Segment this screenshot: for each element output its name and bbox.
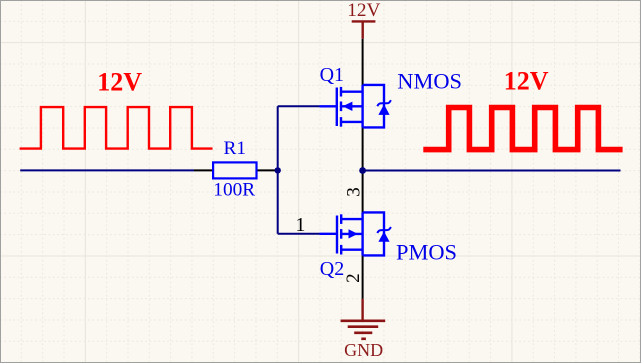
wire Q2 source (black) <box>362 255 364 299</box>
output square wave (bold red) <box>423 108 622 150</box>
power port 12V <box>352 21 376 38</box>
svg-text:Q2: Q2 <box>320 258 344 280</box>
wire input (navy) <box>20 169 194 171</box>
transistor Q1 (NMOS) <box>320 85 385 128</box>
svg-text:PMOS: PMOS <box>396 239 457 264</box>
svg-text:Q1: Q1 <box>320 64 344 86</box>
svg-text:NMOS: NMOS <box>397 69 462 94</box>
svg-text:1: 1 <box>295 214 305 236</box>
wire Q1 source to node (black) <box>362 127 364 170</box>
leads <box>341 90 363 92</box>
resistor R1 <box>213 162 256 178</box>
gate pin <box>320 105 337 107</box>
Q1 bulk arrow <box>343 102 353 111</box>
wire Q1 drain (black) <box>362 39 364 85</box>
wire node to Q2 drain (black) <box>362 171 364 213</box>
svg-text:GND: GND <box>344 340 383 360</box>
leads <box>341 218 362 220</box>
input square wave (red) <box>20 107 213 149</box>
wire gate branch vertical (navy) <box>277 106 279 234</box>
svg-text:12V: 12V <box>347 0 380 21</box>
svg-text:2: 2 <box>343 273 364 283</box>
wire gate Q1 horizontal (navy) <box>278 105 320 107</box>
junction dot output node <box>359 167 366 174</box>
svg-text:100R: 100R <box>213 179 255 200</box>
wire gate Q2 horizontal (navy) <box>278 233 320 235</box>
svg-text:3: 3 <box>344 187 365 197</box>
svg-text:12V: 12V <box>504 67 549 96</box>
Q2 body diode <box>378 232 389 242</box>
channel stubs <box>340 214 342 224</box>
body square <box>363 85 384 128</box>
gate plate <box>336 88 338 127</box>
gate pin <box>320 233 338 235</box>
Q2 bulk arrow <box>349 229 358 238</box>
transistor Q2 (PMOS) <box>320 212 385 255</box>
junction dot input node <box>275 167 281 173</box>
svg-text:R1: R1 <box>224 138 247 159</box>
Q1 body diode <box>378 104 389 115</box>
ground GND <box>341 299 386 339</box>
svg-text:12V: 12V <box>97 67 142 96</box>
body square <box>363 212 384 255</box>
channel stubs <box>340 87 342 97</box>
wire output (navy) <box>363 170 621 172</box>
pin R1 right (black) <box>257 169 278 171</box>
gate plate <box>336 216 338 254</box>
pin R1 left (black) <box>194 169 213 171</box>
